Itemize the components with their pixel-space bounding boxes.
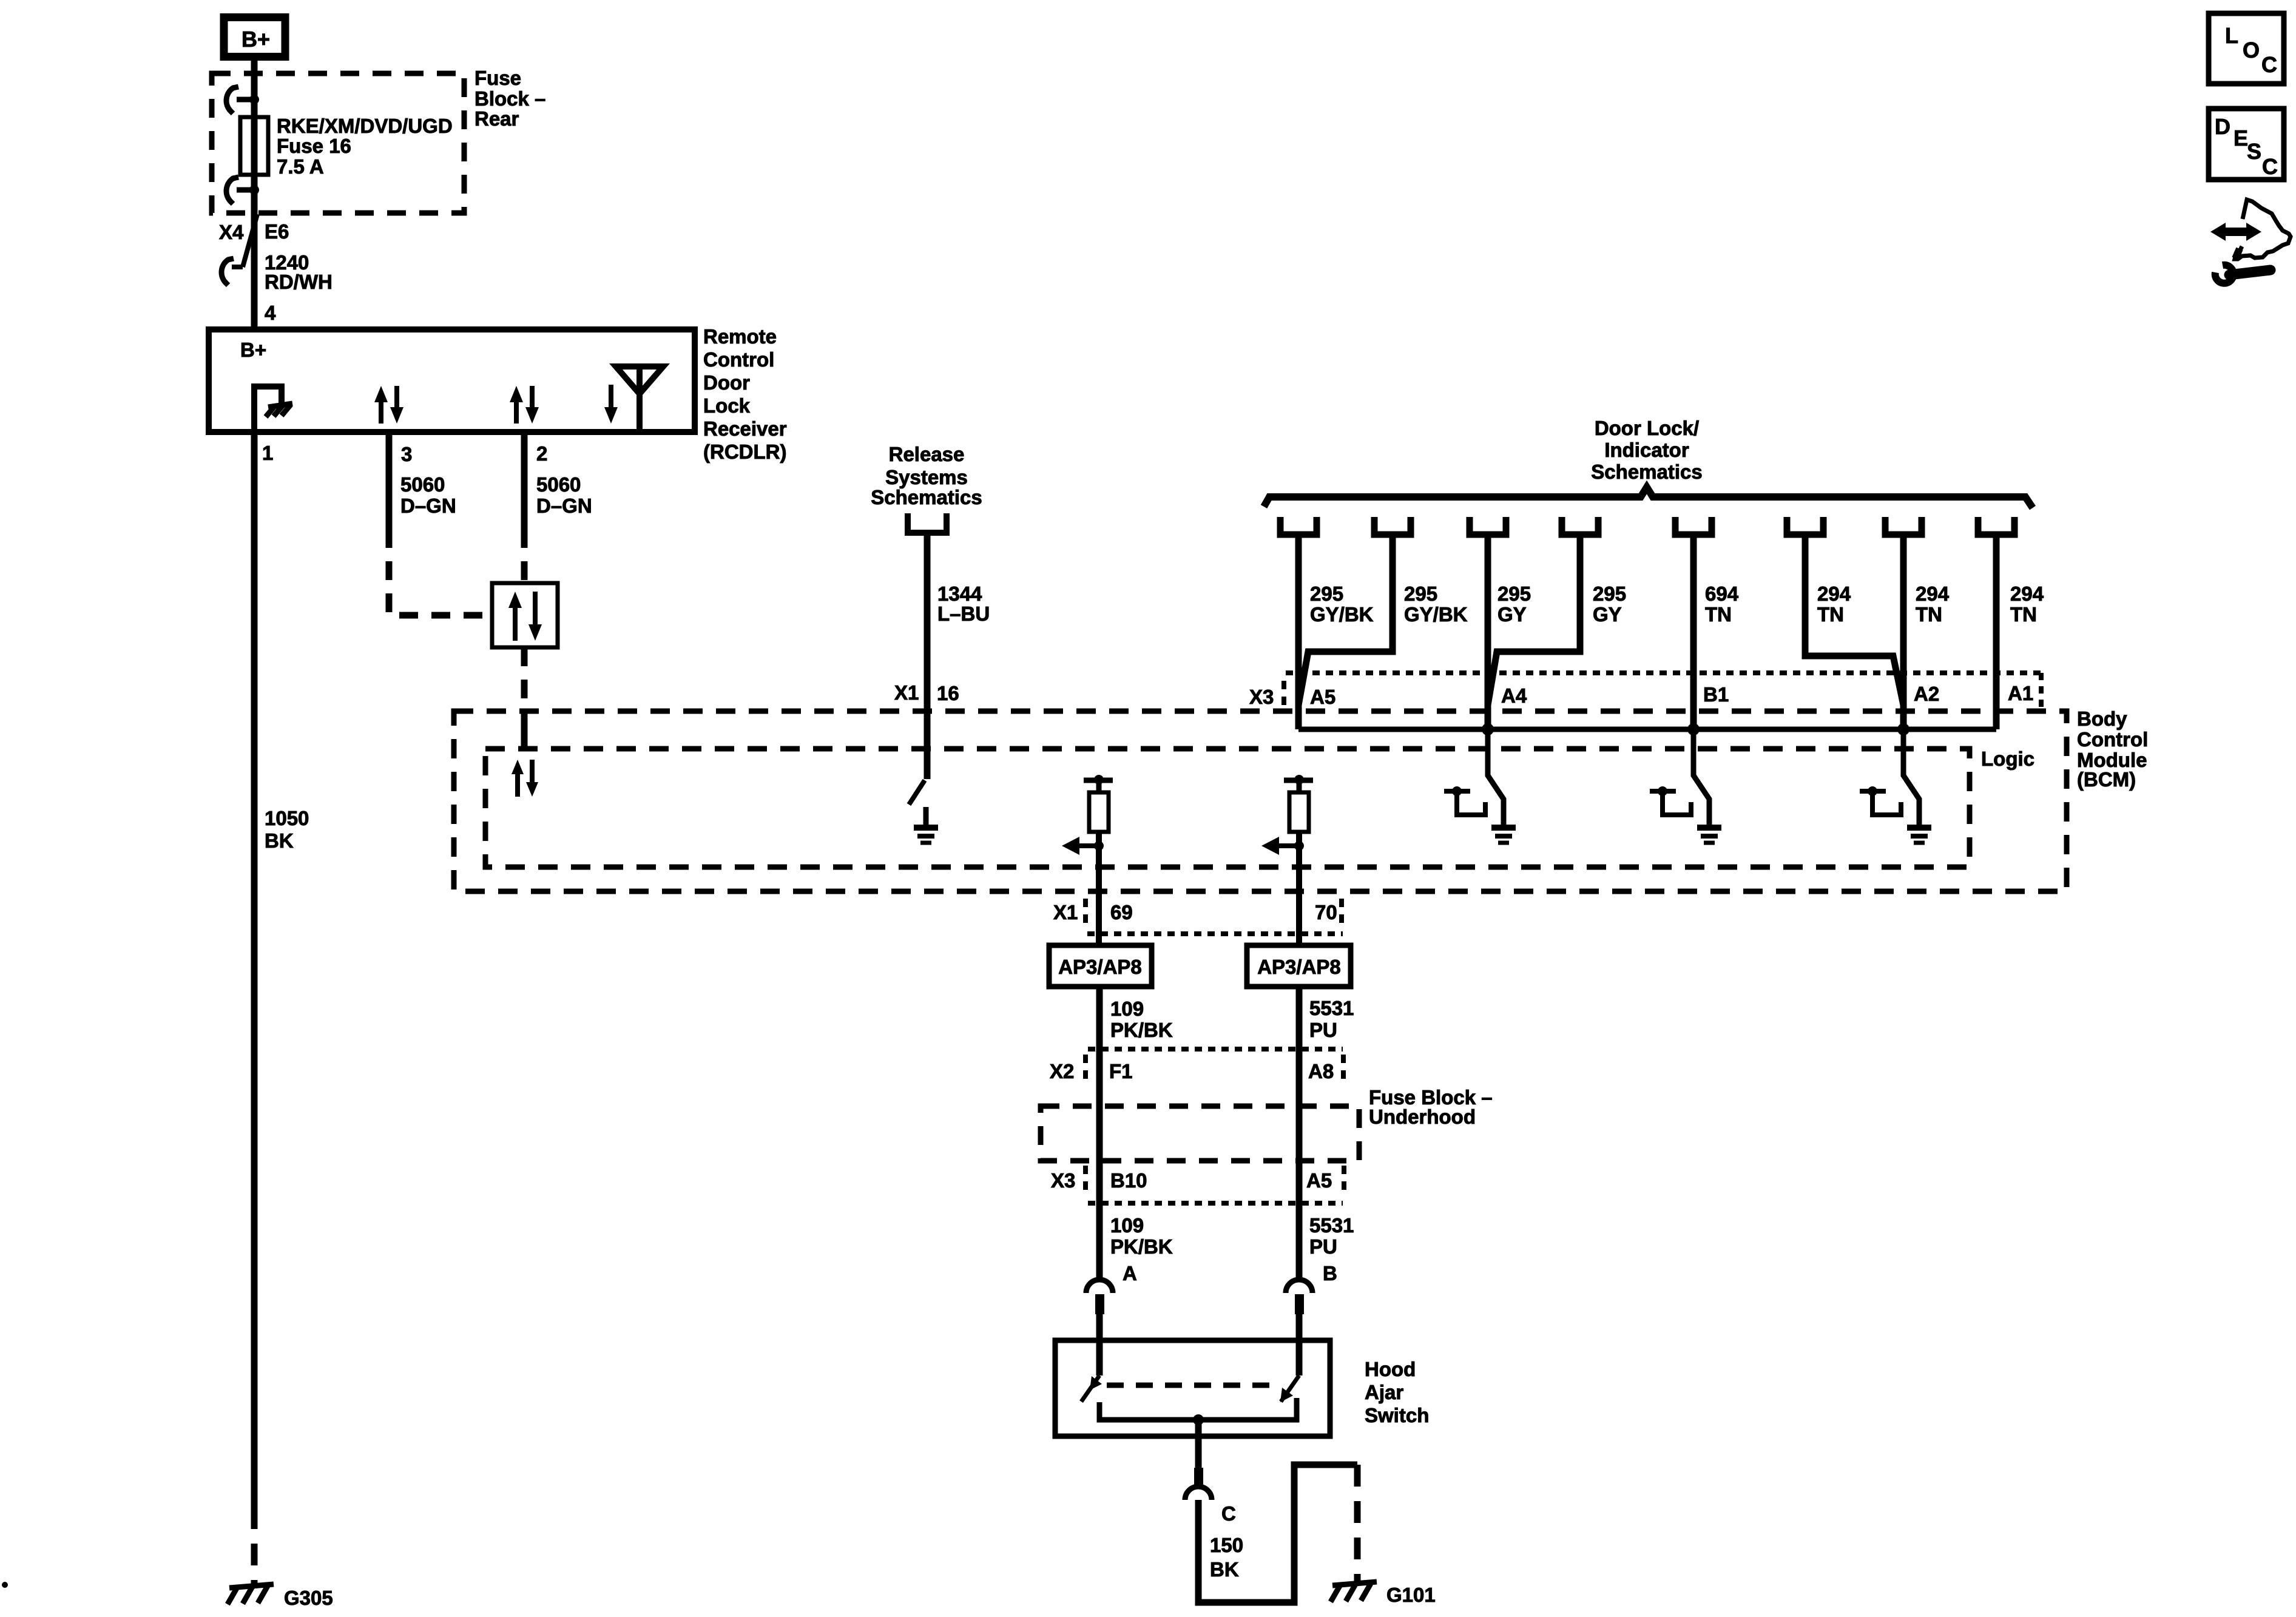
BCM resistor branch pin 70 (1284, 778, 1313, 783)
power feed B+ box (224, 18, 285, 57)
svg-text:109: 109 (1110, 1214, 1144, 1237)
svg-text:TN: TN (1705, 603, 1732, 626)
BCM resistor branch pin 69 (1084, 778, 1113, 783)
svg-text:L: L (2225, 23, 2238, 48)
svg-text:109: 109 (1110, 998, 1144, 1020)
wire 1344 L-BU (924, 533, 931, 779)
svg-text:RD/WH: RD/WH (265, 271, 333, 293)
svg-text:Block –: Block – (474, 87, 545, 110)
svg-text:F1: F1 (1109, 1060, 1133, 1082)
connector to door lock schematics 2 (1374, 517, 1411, 535)
service info icon: connector outline (2235, 200, 2291, 259)
svg-text:X2: X2 (1050, 1060, 1074, 1082)
svg-text:70: 70 (1315, 901, 1337, 923)
connector to door lock schematics 8 (1978, 517, 2014, 535)
connector X4 cavity E6 pass-through (243, 214, 257, 267)
svg-text:Underhood: Underhood (1369, 1106, 1476, 1128)
wire 5531 PU lower (1296, 1161, 1303, 1279)
RCDLR antenna down arrow (604, 407, 618, 424)
wire 1050 BK from pin 1 to G305 (251, 432, 258, 1507)
connector terminal C (1194, 1468, 1203, 1486)
svg-text:295: 295 (1593, 582, 1626, 605)
svg-text:D–GN: D–GN (536, 495, 592, 517)
wire 294 TN #7 (1900, 535, 1907, 729)
svg-text:Indicator: Indicator (1604, 439, 1689, 461)
svg-text:1: 1 (262, 442, 273, 464)
svg-text:7.5 A: 7.5 A (277, 155, 324, 178)
in-line connector AP3/AP8 right (1247, 945, 1351, 987)
svg-text:G305: G305 (284, 1587, 333, 1609)
door lock/unlock signal box (492, 583, 558, 647)
RCDLR antenna (616, 366, 663, 394)
svg-text:BK: BK (1210, 1558, 1239, 1581)
svg-text:Rear: Rear (474, 107, 519, 130)
svg-text:5060: 5060 (536, 473, 581, 496)
svg-text:X4: X4 (219, 221, 244, 243)
service info icon: wrench (2215, 265, 2234, 283)
wire 150 BK (1195, 1420, 1202, 1468)
svg-text:A5: A5 (1310, 686, 1335, 708)
BCM driver + ground at B1 (1658, 786, 1667, 796)
connector to door lock schematics 6 (1787, 517, 1823, 535)
svg-text:A1: A1 (2008, 682, 2033, 704)
svg-text:PU: PU (1309, 1235, 1337, 1258)
svg-text:GY/BK: GY/BK (1404, 603, 1468, 626)
svg-text:Release: Release (889, 443, 965, 465)
page mark (2, 1582, 8, 1588)
connector to door lock schematics 3 (1470, 517, 1506, 535)
svg-text:Schematics: Schematics (871, 486, 982, 508)
connector X3 strip B10/A5 (1088, 1201, 1343, 1206)
svg-text:O: O (2243, 38, 2260, 62)
svg-text:Body: Body (2077, 707, 2127, 730)
RCDLR lock/unlock arrows pin 3 (374, 386, 388, 402)
svg-text:B: B (1323, 1262, 1337, 1284)
wire 294 TN #8 (1993, 535, 2000, 729)
svg-text:295: 295 (1310, 582, 1343, 605)
wire 295 GY/BK #2 (1298, 535, 1393, 705)
BCM driver + ground at A2 (1868, 786, 1877, 796)
svg-text:S: S (2247, 139, 2261, 164)
svg-text:Logic: Logic (1981, 748, 2034, 770)
connector to door lock schematics 1 (1280, 517, 1317, 535)
RCDLR module box (209, 329, 695, 432)
svg-text:G101: G101 (1386, 1584, 1436, 1606)
svg-text:RKE/XM/DVD/UGD: RKE/XM/DVD/UGD (277, 115, 453, 137)
svg-text:1050: 1050 (265, 807, 309, 829)
off-page connector bracket (908, 513, 947, 533)
svg-text:69: 69 (1110, 901, 1133, 923)
svg-text:294: 294 (1916, 582, 1950, 605)
wire 109 PK/BK upper (1096, 987, 1103, 1106)
fuse RKE/XM/DVD/UGD Fuse 16 7.5 A (240, 117, 268, 175)
svg-text:1344: 1344 (937, 582, 982, 605)
wire 295 GY #3 (1485, 535, 1491, 729)
svg-text:C: C (1221, 1502, 1236, 1525)
fuse block - underhood dashed box (1041, 1106, 1359, 1161)
svg-text:2: 2 (536, 442, 547, 465)
RCDLR lock/unlock arrows pin 2 (510, 386, 523, 402)
svg-text:PK/BK: PK/BK (1110, 1235, 1173, 1258)
BCM internal bus (1298, 727, 1996, 732)
svg-text:GY/BK: GY/BK (1310, 603, 1374, 626)
connector X3 strip (BCM) (1286, 670, 2041, 675)
fuse clip terminal bottom (226, 177, 238, 204)
svg-text:(BCM): (BCM) (2077, 768, 2136, 791)
BCM release signal ground (923, 807, 929, 826)
connector terminal A (1086, 1280, 1113, 1293)
svg-text:694: 694 (1705, 582, 1739, 605)
svg-text:295: 295 (1404, 582, 1437, 605)
svg-text:5060: 5060 (400, 473, 445, 496)
connector to door lock schematics 7 (1885, 517, 1922, 535)
svg-text:Ajar: Ajar (1365, 1381, 1403, 1403)
ground G305 (228, 1584, 274, 1604)
svg-text:3: 3 (401, 443, 412, 465)
svg-text:E6: E6 (265, 220, 289, 243)
svg-text:B1: B1 (1703, 683, 1729, 706)
svg-text:X1: X1 (894, 681, 919, 704)
svg-text:Lock: Lock (703, 394, 751, 417)
fuse clip terminal top (226, 87, 238, 113)
svg-text:AP3/AP8: AP3/AP8 (1058, 956, 1142, 978)
hood switch common bar (1099, 1398, 1297, 1420)
BCM outer dashed box (454, 711, 2067, 891)
wire 694 TN #5 (1690, 535, 1697, 729)
svg-text:16: 16 (937, 682, 959, 704)
svg-text:294: 294 (1817, 582, 1851, 605)
connector X1 strip pins 69/70 (1087, 931, 1343, 936)
svg-text:Control: Control (703, 348, 774, 371)
wire 295 GY #4 (1488, 535, 1580, 705)
svg-text:294: 294 (2010, 582, 2044, 605)
ground G101 (1331, 1582, 1377, 1602)
RCDLR internal ground symbol (254, 387, 282, 432)
svg-text:E: E (2234, 126, 2248, 150)
svg-text:A2: A2 (1914, 683, 1939, 705)
svg-text:Remote: Remote (703, 325, 777, 348)
wire 5531 PU upper (1296, 987, 1303, 1106)
svg-text:150: 150 (1210, 1534, 1243, 1556)
svg-text:4: 4 (265, 302, 276, 324)
svg-text:B+: B+ (241, 27, 270, 52)
svg-text:Receiver: Receiver (703, 417, 787, 440)
svg-text:B10: B10 (1110, 1169, 1147, 1192)
svg-text:5531: 5531 (1309, 997, 1354, 1019)
hood ajar switch box (1055, 1340, 1330, 1436)
svg-text:5531: 5531 (1309, 1214, 1354, 1237)
svg-text:Fuse: Fuse (474, 67, 521, 89)
svg-text:X1: X1 (1053, 901, 1078, 923)
dashed wire into BCM (521, 647, 528, 710)
svg-text:A5: A5 (1306, 1169, 1332, 1192)
svg-text:(RCDLR): (RCDLR) (703, 441, 786, 463)
svg-text:GY: GY (1497, 603, 1527, 626)
svg-text:PK/BK: PK/BK (1110, 1019, 1173, 1041)
connector X2 strip F1/A8 (1088, 1047, 1343, 1052)
svg-text:Door: Door (703, 371, 750, 394)
service info icon: double arrow (2210, 223, 2226, 241)
svg-text:A8: A8 (1308, 1060, 1334, 1082)
svg-text:Switch: Switch (1365, 1404, 1429, 1426)
brace over door lock connectors (1264, 487, 2033, 508)
hood switch blade B (1281, 1376, 1299, 1402)
wire 294 TN #6 (1805, 535, 1903, 705)
svg-text:TN: TN (2010, 603, 2037, 626)
svg-text:X3: X3 (1249, 686, 1274, 708)
svg-text:AP3/AP8: AP3/AP8 (1257, 956, 1341, 978)
svg-text:PU: PU (1309, 1019, 1337, 1041)
BCM driver + ground at A4 (1452, 786, 1462, 796)
svg-text:C: C (2262, 154, 2278, 179)
svg-text:A4: A4 (1501, 684, 1527, 707)
hood switch linkage dashed (1107, 1383, 1278, 1388)
LOC reference box (2209, 13, 2284, 84)
svg-text:GY: GY (1593, 603, 1622, 626)
svg-text:Door Lock/: Door Lock/ (1595, 417, 1699, 439)
svg-text:Schematics: Schematics (1591, 461, 1702, 483)
svg-text:D: D (2215, 114, 2230, 139)
connector to door lock schematics 4 (1562, 517, 1598, 535)
BCM logic lock/unlock arrows (512, 760, 524, 774)
fuse block - rear dashed box (212, 73, 464, 213)
svg-text:TN: TN (1817, 603, 1844, 626)
svg-text:L–BU: L–BU (937, 603, 990, 625)
svg-text:A: A (1123, 1262, 1137, 1284)
wire 109 PK/BK lower (1096, 1161, 1103, 1279)
svg-text:Systems: Systems (885, 466, 968, 488)
svg-text:Fuse 16: Fuse 16 (277, 135, 351, 157)
svg-text:B+: B+ (240, 339, 266, 361)
svg-text:BK: BK (265, 829, 294, 852)
wire 295 GY/BK #1 (1295, 535, 1302, 729)
svg-text:295: 295 (1497, 582, 1531, 605)
svg-text:TN: TN (1916, 603, 1942, 626)
svg-text:Hood: Hood (1365, 1358, 1416, 1380)
hood switch blade A (1081, 1376, 1099, 1402)
wire 5060 D-GN pin 2 (521, 432, 528, 529)
svg-text:D–GN: D–GN (400, 495, 456, 517)
connector to door lock schematics 5 (1675, 517, 1712, 535)
connector terminal B (1286, 1280, 1312, 1293)
svg-text:C: C (2261, 52, 2277, 77)
DESC reference box (2209, 109, 2284, 180)
BCM logic dashed box (485, 749, 1970, 867)
svg-text:X3: X3 (1051, 1169, 1075, 1192)
in-line connector AP3/AP8 left (1049, 945, 1152, 987)
BCM release switch blade (909, 780, 925, 805)
wire 5060 D-GN pin 3 (386, 432, 393, 529)
wire: B+ feed through Fuse 16 to RCDLR pin 4 (251, 57, 258, 329)
svg-text:Control: Control (2077, 728, 2148, 751)
